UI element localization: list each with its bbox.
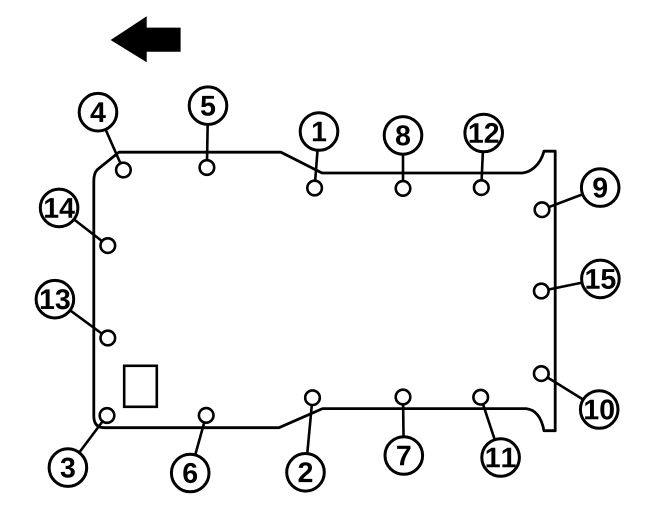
leader line to bolt 8 [402,135,405,188]
callout circle 6 [171,454,209,492]
bolt hole 4 [116,163,131,178]
bolt hole 3 [100,408,115,423]
leader line to bolt 3 [68,416,107,468]
leader line to bolt 1 [315,132,319,189]
callout circle 5 [189,87,227,125]
bolt hole 9 [535,202,550,217]
bolt hole 8 [396,181,411,196]
leader line to bolt 5 [207,106,208,168]
leader line to bolt 14 [59,208,108,246]
oil pan gasket outline [94,151,555,431]
callout circle 2 [287,454,325,492]
callout circle 11 [482,439,520,477]
callout circle 4 [79,93,117,131]
bolt hole 10 [534,366,549,381]
bolt hole 6 [199,408,214,423]
callout circle 12 [465,114,503,152]
callout circle 15 [582,260,620,298]
bolt hole 12 [474,180,489,195]
callout circle 10 [580,391,618,429]
callout circle 7 [385,437,423,475]
callout circle 8 [384,117,422,155]
leader line to bolt 11 [481,397,501,457]
bolt hole 14 [101,238,116,253]
direction arrow (points left, front of engine) [111,16,181,62]
bolt hole 15 [534,284,549,299]
bolt hole 1 [307,181,322,196]
leader line to bolt 15 [541,279,600,291]
leader line to bolt 13 [55,299,108,338]
callout circle 13 [36,280,74,318]
bolt hole 2 [305,390,320,405]
callout circle 3 [49,449,87,487]
drain plug rectangle [124,366,157,407]
leader line to bolt 10 [541,374,599,410]
bolt hole 5 [200,160,215,175]
callout circle 9 [581,169,619,207]
bolt hole 11 [473,390,488,405]
leader line to bolt 6 [190,415,206,473]
leader line to bolt 7 [402,397,405,456]
leader line to bolt 12 [481,133,483,188]
callout circle 14 [40,189,78,227]
bolt hole 13 [101,331,116,346]
callout circle 1 [300,113,338,151]
bolt hole 7 [396,390,411,405]
leader line to bolt 9 [542,188,600,210]
leader line to bolt 4 [98,112,123,170]
leader line to bolt 2 [306,398,313,473]
